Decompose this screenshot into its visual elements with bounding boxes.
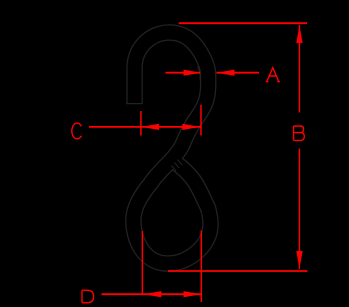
D dimension line <box>102 293 202 295</box>
wire end wedge hatching <box>172 160 183 172</box>
open end cut of top hook <box>126 103 142 105</box>
C dimension line <box>89 126 201 128</box>
D right arrow (points right) <box>184 291 202 297</box>
s-hook body outline (double stroke trick) <box>133 33 210 264</box>
bottom extension line <box>168 270 308 272</box>
arrowheads <box>141 25 302 297</box>
label B <box>294 126 305 140</box>
top extension line <box>179 22 307 24</box>
B bottom arrow <box>296 251 302 269</box>
label D <box>82 290 94 303</box>
D left arrow (points left) <box>144 291 162 297</box>
A right arrow (points left) <box>217 70 235 76</box>
B top arrow <box>296 25 302 43</box>
D extension ticks <box>142 231 201 303</box>
A left arrow (points right) <box>184 70 202 76</box>
red dimension graphics <box>89 23 308 302</box>
A dimension lines <box>166 72 260 74</box>
C extension ticks <box>141 105 201 136</box>
label C <box>72 123 82 139</box>
B dimension vertical line (broken for label) <box>298 25 300 269</box>
C right arrow (points right) <box>182 124 200 130</box>
label A <box>266 68 280 82</box>
inner elbow edge reinforcement <box>197 67 200 81</box>
C left arrow (points left) <box>141 124 159 130</box>
